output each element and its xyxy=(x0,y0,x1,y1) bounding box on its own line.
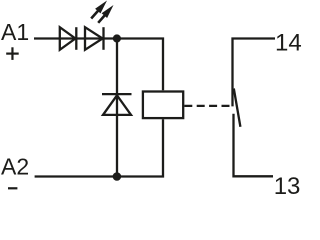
minus polarity mark xyxy=(8,187,17,189)
LED emission arrow 1 xyxy=(91,1,107,19)
mechanical actuator dashed link xyxy=(184,105,230,107)
LED D2 (status indicator) xyxy=(85,27,104,50)
contact blade (normally open) xyxy=(234,89,241,127)
wire: A2 bottom rail up to coil xyxy=(35,119,163,176)
junction node bottom xyxy=(113,172,122,181)
diode D1 (reverse polarity protection) xyxy=(60,27,77,50)
LED emission arrow 2 xyxy=(98,5,113,23)
contact terminal 14 wire xyxy=(233,39,276,107)
svg-text:13: 13 xyxy=(274,173,301,200)
junction node top xyxy=(113,34,121,42)
svg-text:A1: A1 xyxy=(1,19,29,45)
svg-text:14: 14 xyxy=(275,30,302,57)
freewheeling diode D3 xyxy=(102,94,132,115)
wire: A1 top rail to coil corner xyxy=(34,39,163,91)
plus polarity mark xyxy=(6,47,19,60)
wire: vertical branch with freewheeling diode xyxy=(116,39,118,177)
relay coil K1 xyxy=(143,92,183,119)
contact terminal 13 wire xyxy=(234,114,274,177)
svg-text:A2: A2 xyxy=(1,154,29,180)
